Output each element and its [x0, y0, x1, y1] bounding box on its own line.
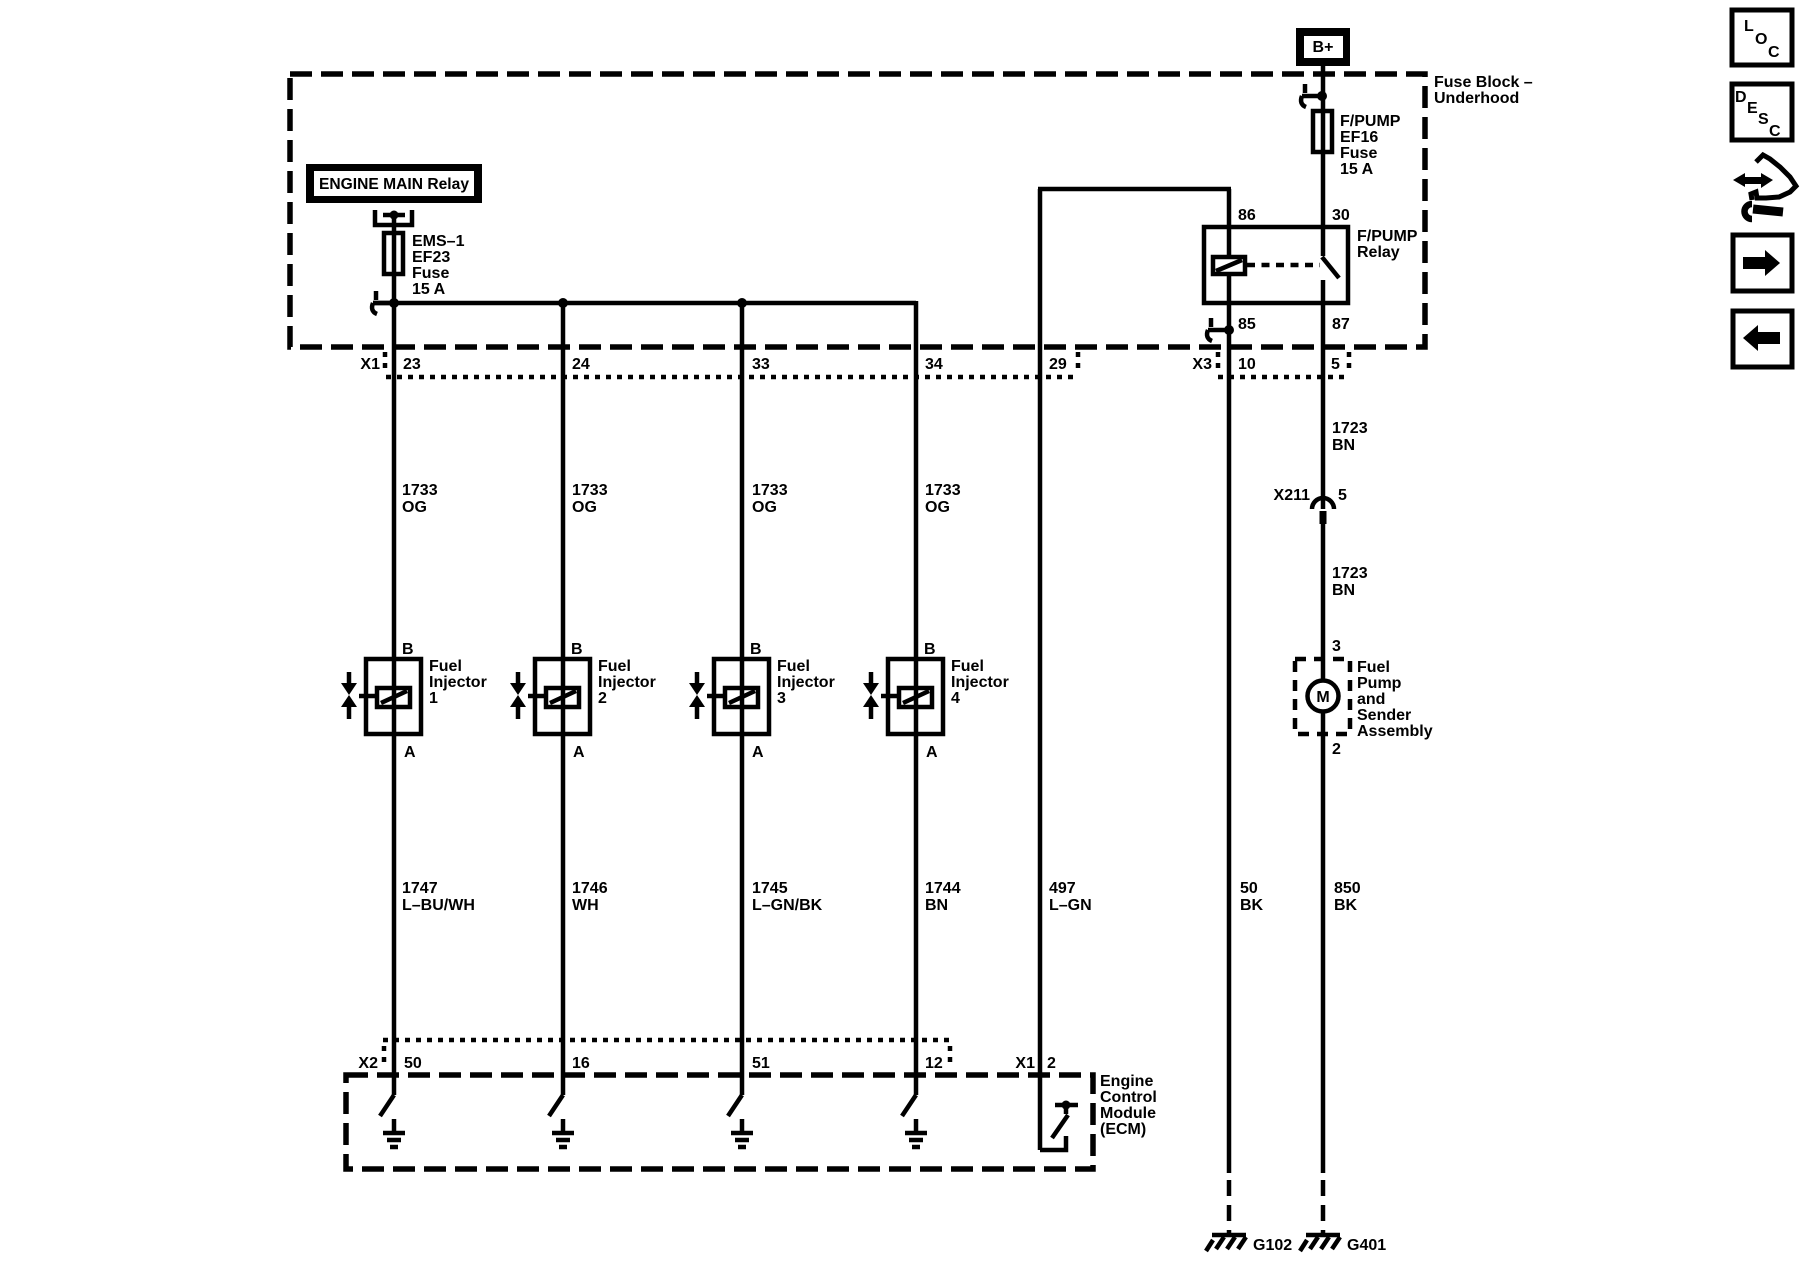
svg-text:A: A [926, 744, 938, 761]
svg-text:850: 850 [1334, 880, 1361, 897]
fuse F/PUMP EF16 15 A [1313, 111, 1332, 152]
svg-text:Pump: Pump [1357, 675, 1402, 692]
inline connector clip at relay pin 85 [1207, 318, 1234, 341]
fuse block underhood dashed box [290, 74, 1425, 347]
ground G401 [1300, 1235, 1386, 1254]
svg-text:1723: 1723 [1332, 565, 1368, 582]
svg-text:Fuse: Fuse [1340, 145, 1377, 162]
wire link down to relay pin 86 [1227, 189, 1232, 257]
svg-text:1747: 1747 [402, 880, 438, 897]
svg-text:Module: Module [1100, 1105, 1156, 1122]
relay coil [1213, 257, 1245, 274]
wire label 1723 BN upper [1332, 420, 1368, 454]
svg-text:X2: X2 [358, 1055, 378, 1072]
svg-text:1733: 1733 [402, 482, 438, 499]
svg-text:24: 24 [572, 356, 590, 373]
svg-text:1733: 1733 [572, 482, 608, 499]
svg-text:A: A [573, 744, 585, 761]
svg-text:30: 30 [1332, 207, 1350, 224]
svg-text:50: 50 [1240, 880, 1258, 897]
svg-text:Sender: Sender [1357, 707, 1411, 724]
svg-text:BN: BN [925, 897, 948, 914]
wire B+ down to F/PUMP fuse and relay pin 30 [1321, 66, 1326, 256]
svg-text:B: B [571, 641, 583, 658]
svg-text:ENGINE MAIN Relay: ENGINE MAIN Relay [319, 176, 469, 193]
svg-text:Fuel: Fuel [777, 658, 810, 675]
svg-text:E: E [1747, 100, 1758, 117]
ECM dashed box [346, 1075, 1093, 1169]
svg-text:85: 85 [1238, 316, 1256, 333]
svg-text:1745: 1745 [752, 880, 788, 897]
svg-text:29: 29 [1049, 356, 1067, 373]
svg-text:16: 16 [572, 1055, 590, 1072]
ECM driver switch 1 [380, 1095, 405, 1147]
wire label 497 L-GN [1049, 880, 1092, 914]
svg-text:Fuse: Fuse [412, 265, 449, 282]
svg-text:Control: Control [1100, 1089, 1157, 1106]
svg-text:BN: BN [1332, 437, 1355, 454]
wire fuel pump to ground G401 [1321, 711, 1326, 1173]
relay switch blade [1322, 257, 1339, 278]
junction dot injector2 [558, 298, 568, 308]
svg-text:12: 12 [925, 1055, 943, 1072]
svg-text:Injector: Injector [429, 674, 487, 691]
svg-text:WH: WH [572, 897, 599, 914]
svg-text:L–GN/BK: L–GN/BK [752, 897, 823, 914]
fuel injector 4 [863, 641, 1009, 761]
fuel injector 3 [689, 641, 835, 761]
EMS fuse top terminal [375, 210, 412, 225]
wire label 1746 WH [572, 880, 608, 914]
svg-text:Engine: Engine [1100, 1073, 1153, 1090]
wire label 1745 L-GN/BK [752, 880, 823, 914]
wire injector3 feed x=742 [740, 303, 745, 1095]
wire X211 to fuel pump [1321, 524, 1326, 681]
svg-text:BN: BN [1332, 582, 1355, 599]
wire label 850 BK [1334, 880, 1361, 914]
wire 50 BK dashed tail [1227, 1180, 1232, 1233]
wire injector1 feed x=394 [392, 215, 397, 1095]
svg-text:Underhood: Underhood [1434, 90, 1519, 107]
wire label 1744 BN [925, 880, 961, 914]
ECM driver switch 3 [728, 1095, 753, 1147]
svg-text:1733: 1733 [925, 482, 961, 499]
sidebar icon schematic shortcut [1733, 155, 1796, 219]
svg-text:A: A [752, 744, 764, 761]
ENGINE MAIN Relay title box [306, 164, 482, 203]
svg-text:OG: OG [925, 499, 950, 516]
svg-text:Injector: Injector [777, 674, 835, 691]
svg-text:10: 10 [1238, 356, 1256, 373]
svg-text:EMS–1: EMS–1 [412, 233, 465, 250]
connector X2 strip dotted line [383, 1040, 950, 1068]
svg-text:O: O [1755, 31, 1767, 48]
svg-text:3: 3 [1332, 638, 1341, 655]
wire coil to pin 85 [1227, 274, 1232, 1173]
svg-text:4: 4 [951, 690, 960, 707]
svg-text:15 A: 15 A [1340, 161, 1374, 178]
svg-text:5: 5 [1338, 487, 1347, 504]
svg-text:2: 2 [1332, 741, 1341, 758]
svg-text:Fuel: Fuel [598, 658, 631, 675]
wire label 1747 L-BU/WH [402, 880, 475, 914]
svg-text:D: D [1735, 89, 1747, 106]
svg-text:1: 1 [429, 690, 438, 707]
svg-text:1746: 1746 [572, 880, 608, 897]
svg-text:3: 3 [777, 690, 786, 707]
label Engine Control Module [1100, 1073, 1157, 1138]
wire ECM pin2 riser x=1040 [1038, 189, 1043, 1150]
svg-text:OG: OG [752, 499, 777, 516]
svg-text:C: C [1769, 123, 1781, 140]
wire injector4 feed x=916 [914, 301, 919, 1095]
svg-text:B: B [402, 641, 414, 658]
connector X1 strip separators and dotted line [385, 352, 1079, 377]
svg-text:and: and [1357, 691, 1385, 708]
svg-text:X211: X211 [1274, 487, 1311, 504]
svg-text:G102: G102 [1253, 1237, 1292, 1254]
svg-text:Fuel: Fuel [429, 658, 462, 675]
svg-text:L–GN: L–GN [1049, 897, 1092, 914]
svg-text:Fuel: Fuel [1357, 659, 1390, 676]
svg-text:Fuel: Fuel [951, 658, 984, 675]
svg-text:1744: 1744 [925, 880, 961, 897]
svg-text:BK: BK [1240, 897, 1264, 914]
svg-text:5: 5 [1331, 356, 1340, 373]
fuse EMS-1 EF23 15 A [384, 233, 403, 274]
svg-text:OG: OG [402, 499, 427, 516]
wire 850 BK dashed tail [1321, 1180, 1326, 1233]
inline connector X211 [1274, 487, 1347, 524]
svg-text:BK: BK [1334, 897, 1358, 914]
junction dot injector3 [737, 298, 747, 308]
svg-text:B: B [750, 641, 762, 658]
svg-text:C: C [1768, 44, 1780, 61]
svg-text:M: M [1316, 689, 1329, 706]
svg-text:23: 23 [403, 356, 421, 373]
svg-text:A: A [404, 744, 416, 761]
svg-text:Fuse Block –: Fuse Block – [1434, 74, 1533, 91]
inline connector clip on B+ wire [1301, 84, 1327, 107]
wire label 1723 BN lower [1332, 565, 1368, 599]
ECM relay driver contact [1040, 1101, 1078, 1151]
wire top link y=189 [1038, 187, 1231, 192]
wire label 1733 OG circuit 1 [402, 482, 438, 516]
wire switch to pin 87 and down [1321, 280, 1326, 509]
svg-text:34: 34 [925, 356, 943, 373]
svg-text:F/PUMP: F/PUMP [1340, 113, 1401, 130]
svg-text:L–BU/WH: L–BU/WH [402, 897, 475, 914]
ECM driver switch 4 [902, 1095, 927, 1147]
svg-text:B+: B+ [1313, 39, 1334, 56]
wire label 1733 OG circuit 4 [925, 482, 961, 516]
node B+ battery feed [1296, 28, 1350, 66]
svg-text:86: 86 [1238, 207, 1256, 224]
svg-text:F/PUMP: F/PUMP [1357, 228, 1418, 245]
svg-text:Injector: Injector [951, 674, 1009, 691]
svg-text:X3: X3 [1192, 356, 1212, 373]
sidebar icon back arrow [1733, 311, 1792, 367]
svg-text:S: S [1758, 111, 1769, 128]
inline connector clip at EMS fuse output [372, 291, 394, 314]
svg-text:(ECM): (ECM) [1100, 1121, 1146, 1138]
svg-text:2: 2 [598, 690, 607, 707]
svg-text:OG: OG [572, 499, 597, 516]
svg-text:497: 497 [1049, 880, 1076, 897]
svg-text:87: 87 [1332, 316, 1350, 333]
svg-text:G401: G401 [1347, 1237, 1386, 1254]
ground G102 [1206, 1235, 1292, 1254]
svg-text:Relay: Relay [1357, 244, 1400, 261]
label Fuse Block Underhood [1434, 74, 1533, 107]
svg-text:51: 51 [752, 1055, 770, 1072]
svg-text:EF23: EF23 [412, 249, 450, 266]
svg-text:X1: X1 [1015, 1055, 1035, 1072]
relay F/PUMP box [1204, 227, 1348, 303]
wire injector2 feed x=563 [561, 303, 566, 1095]
wire feed bus y=303 [373, 301, 916, 306]
svg-text:Injector: Injector [598, 674, 656, 691]
svg-text:X1: X1 [360, 356, 380, 373]
wire label 1733 OG circuit 3 [752, 482, 788, 516]
fuel injector 2 [510, 641, 656, 761]
svg-text:50: 50 [404, 1055, 422, 1072]
svg-text:1733: 1733 [752, 482, 788, 499]
junction dot injector1 [389, 298, 399, 308]
wire label 50 BK [1240, 880, 1264, 914]
svg-text:15 A: 15 A [412, 281, 446, 298]
svg-text:B: B [924, 641, 936, 658]
wire label 1733 OG circuit 2 [572, 482, 608, 516]
sidebar icon forward arrow [1733, 235, 1792, 291]
svg-text:Assembly: Assembly [1357, 723, 1433, 740]
svg-text:2: 2 [1047, 1055, 1056, 1072]
svg-text:EF16: EF16 [1340, 129, 1378, 146]
svg-text:33: 33 [752, 356, 770, 373]
relay dashed actuation link [1247, 263, 1320, 268]
sidebar icon DESC [1732, 84, 1792, 140]
svg-text:L: L [1744, 18, 1754, 35]
connector X3 separators and strip [1218, 352, 1350, 377]
fuel injector 1 [341, 641, 487, 761]
sidebar icon LOC [1732, 10, 1792, 65]
svg-text:1723: 1723 [1332, 420, 1368, 437]
ECM driver switch 2 [549, 1095, 574, 1147]
fuel pump and sender assembly [1295, 659, 1433, 740]
